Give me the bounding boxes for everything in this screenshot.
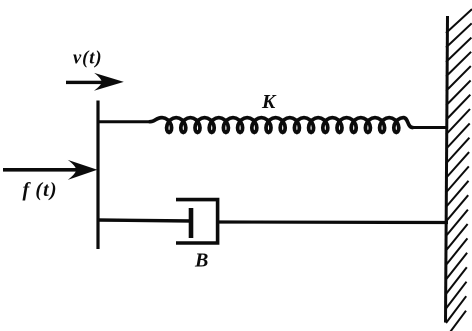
- svg-text:K: K: [261, 91, 277, 113]
- arrow f(t): [3, 160, 97, 180]
- wire spring left: [97, 120, 151, 123]
- damper cylinder: [176, 200, 218, 243]
- svg-text:f (t): f (t): [23, 179, 57, 201]
- wire damper right: [219, 220, 448, 224]
- wire damper rod: [97, 220, 192, 221]
- damper piston: [189, 208, 194, 238]
- spring K: [150, 118, 412, 133]
- wall hatching: [446, 9, 472, 331]
- arrow v(t): [66, 73, 124, 91]
- svg-text:B: B: [194, 250, 208, 272]
- wire spring right: [411, 126, 448, 129]
- wall line: [446, 16, 448, 323]
- svg-text:v(t): v(t): [73, 49, 102, 69]
- node bar (force application point): [96, 101, 99, 250]
